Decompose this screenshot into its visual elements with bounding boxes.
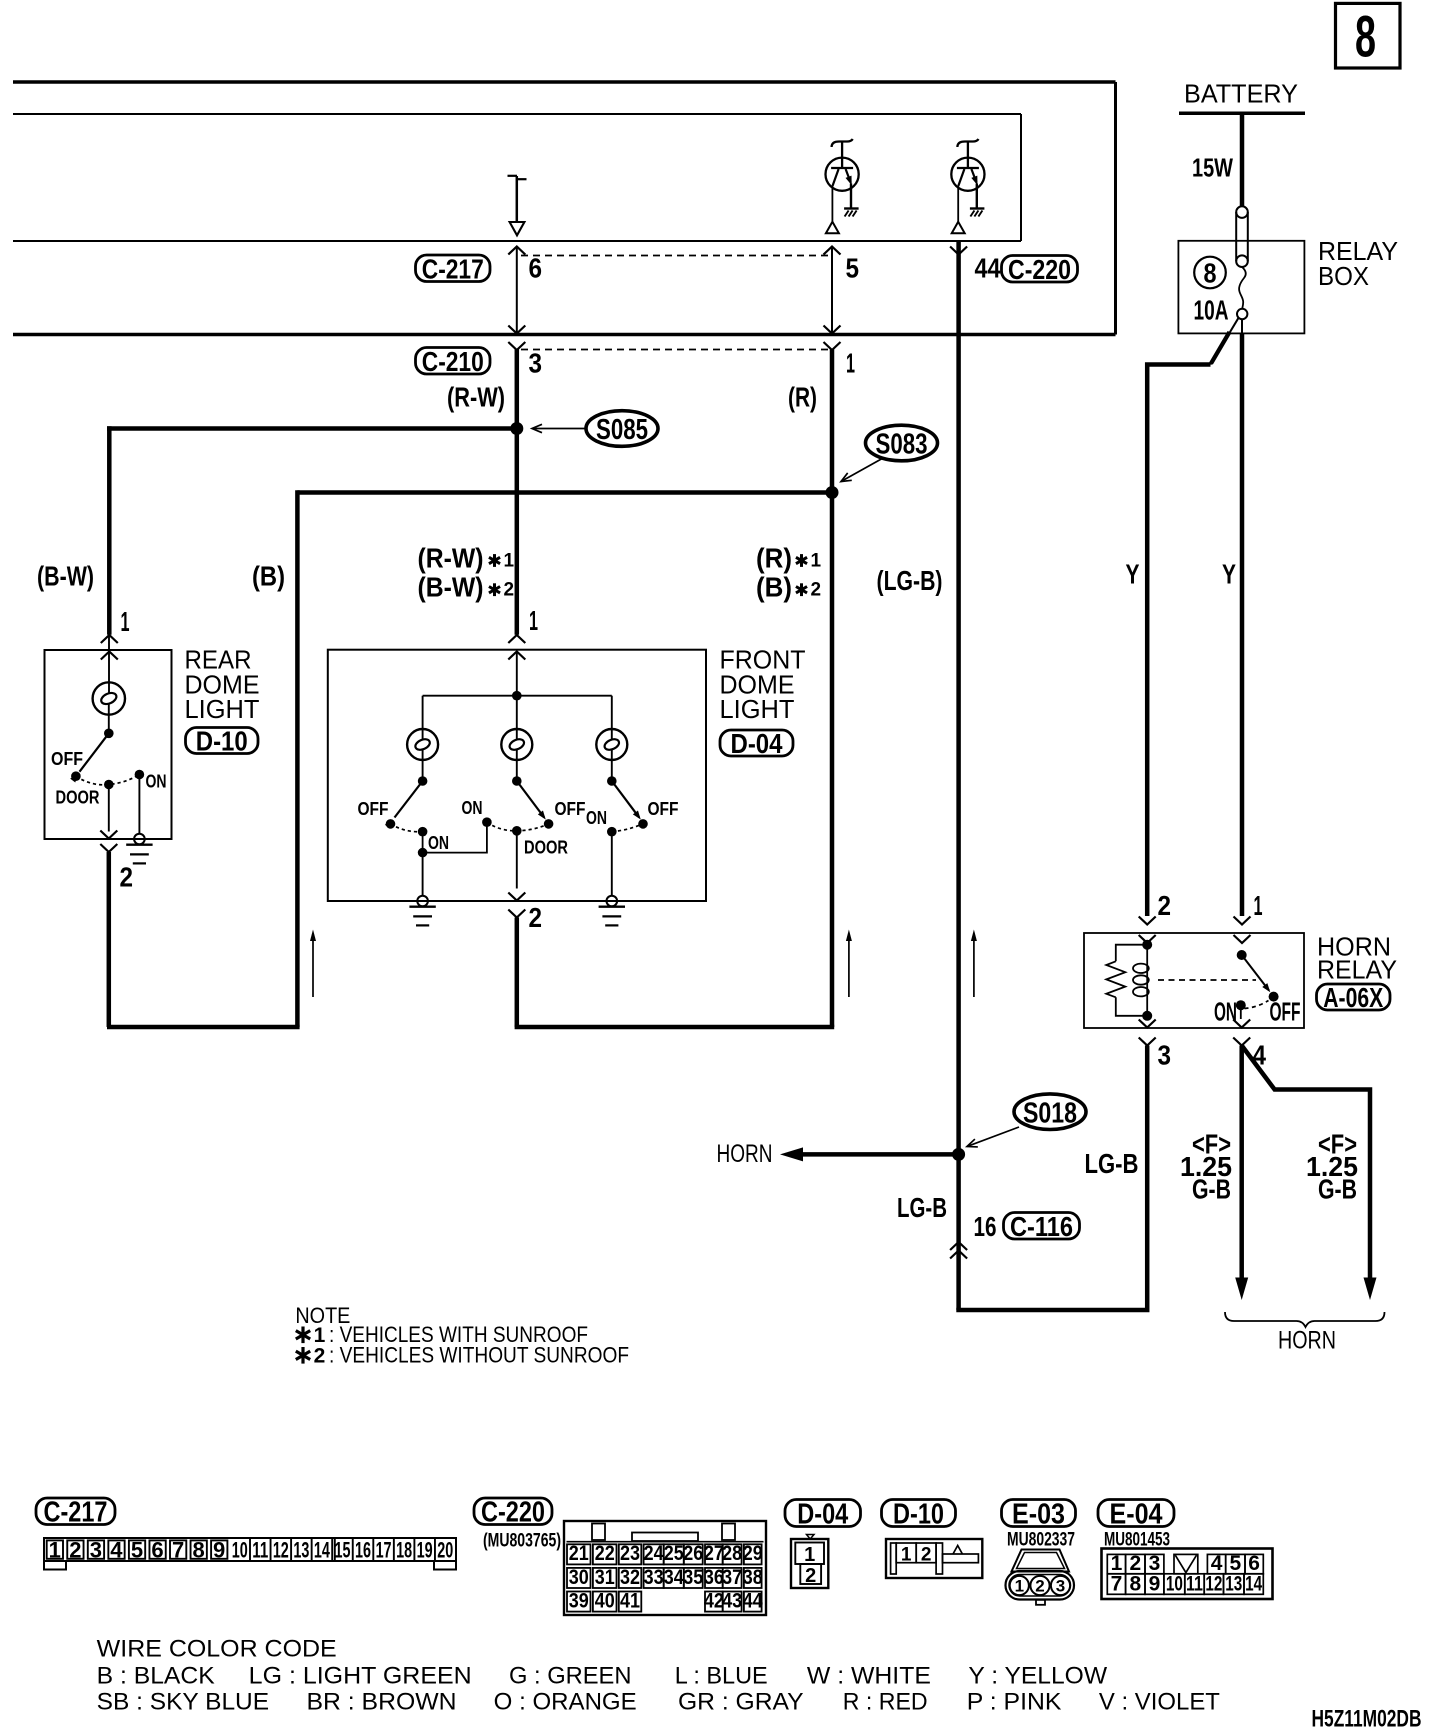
svg-text:29: 29: [743, 1542, 763, 1565]
front-right bulb: [596, 729, 627, 760]
connector E-04 pin numbers: [1111, 1552, 1263, 1595]
label BOX: [1318, 261, 1369, 291]
svg-text:3: 3: [90, 1538, 102, 1563]
connector C-210 label: [416, 346, 491, 377]
svg-text:E-04: E-04: [1110, 1498, 1163, 1530]
svg-text:38: 38: [743, 1566, 763, 1589]
svg-text:(R-W): (R-W): [418, 543, 484, 574]
connector C-220 pin numbers: [569, 1542, 763, 1612]
svg-text:8: 8: [1204, 257, 1217, 288]
lamp feed arrow (dome light circuit, inner box): [508, 176, 527, 236]
svg-text:G-B: G-B: [1192, 1174, 1231, 1205]
label ON (front-right): [586, 808, 607, 828]
wire LG-B horn relay pin3 down: [956, 1046, 1147, 1311]
svg-text:B : BLACK: B : BLACK: [97, 1663, 215, 1690]
wire label (LG-B): [877, 565, 943, 596]
svg-text:5: 5: [131, 1538, 143, 1563]
wire label (R)*1: [756, 543, 822, 574]
svg-text:L : BLUE: L : BLUE: [675, 1663, 768, 1690]
front dome light pin 2 number: [529, 902, 543, 933]
svg-text:LG : LIGHT GREEN: LG : LIGHT GREEN: [249, 1663, 472, 1690]
front-right switch pivot: [607, 776, 617, 786]
label REAR: [185, 645, 252, 675]
wire rail to front-left bulb: [422, 696, 424, 740]
front-left dashed arc: [391, 824, 423, 832]
front-center OFF contact: [544, 819, 554, 829]
svg-text:P : PINK: P : PINK: [967, 1689, 1062, 1716]
label <F> (left): [1192, 1129, 1231, 1160]
svg-text:2: 2: [1158, 890, 1172, 921]
horn relay actuation dashed line: [1158, 979, 1256, 981]
wire label (R-W)*1: [418, 543, 515, 574]
svg-text:1: 1: [504, 551, 515, 572]
node: Q1 output triangle: [826, 222, 839, 234]
chassis ground (Q2 emitter): [970, 209, 985, 217]
svg-text:(B-W): (B-W): [37, 561, 94, 592]
horn relay contact dashed arc: [1245, 1001, 1269, 1009]
horn relay pin 4 link: [1240, 1005, 1242, 1019]
wire label Y (left): [1126, 559, 1140, 590]
connector C-220 pin 44 fork: [950, 247, 967, 255]
svg-text:2: 2: [120, 862, 134, 893]
svg-text:A-06X: A-06X: [1323, 982, 1383, 1013]
rear dome light bulb: [93, 682, 125, 714]
wire (B) horizontal: [297, 490, 832, 495]
wire DOOR down (front): [516, 835, 518, 889]
front-left bulb: [407, 729, 438, 760]
horn relay pin 2 number: [1158, 890, 1172, 921]
svg-text:4: 4: [110, 1538, 123, 1563]
svg-text:RELAY: RELAY: [1317, 955, 1397, 985]
svg-text:19: 19: [417, 1538, 433, 1563]
svg-text:39: 39: [569, 1589, 589, 1612]
connector D-10 pin numbers: [901, 1544, 932, 1565]
label LIGHT (front): [720, 694, 795, 724]
connector E-04 pin grid: [1102, 1549, 1273, 1600]
svg-text:35: 35: [683, 1566, 703, 1589]
svg-text:1: 1: [49, 1538, 61, 1563]
battery bus bar: [1179, 112, 1305, 116]
svg-text:11: 11: [1186, 1572, 1203, 1595]
relay box outline: [1178, 241, 1304, 334]
svg-text:(B): (B): [252, 561, 285, 592]
svg-text:SB : SKY BLUE: SB : SKY BLUE: [97, 1689, 269, 1716]
document number H5Z11M02DB: [1312, 1705, 1422, 1732]
svg-text:21: 21: [569, 1542, 589, 1565]
svg-text:8: 8: [1355, 5, 1376, 70]
connector C-220 panel label: [474, 1497, 552, 1529]
horn relay pin 3 number: [1158, 1040, 1172, 1071]
label RELAY: [1318, 236, 1398, 266]
wire G-B horn feed right branch: [1242, 1046, 1377, 1301]
horn relay resistor: [1106, 961, 1125, 997]
wire (B-W) rear pin 2 down: [107, 852, 112, 1027]
svg-text:15W: 15W: [1192, 153, 1233, 183]
wire Y (right) relay box to horn relay: [1241, 319, 1243, 917]
horn relay coil junction bottom: [1142, 1011, 1152, 1021]
front-right ON contact: [607, 827, 617, 837]
svg-text:11: 11: [252, 1538, 268, 1563]
pin number 3: [529, 348, 543, 379]
wire front-left bulb to switch: [422, 750, 424, 777]
svg-text:ON: ON: [586, 808, 607, 828]
label ON (front-center): [462, 798, 483, 818]
svg-text:8: 8: [1129, 1572, 1141, 1595]
svg-text:(R): (R): [788, 381, 817, 412]
front-center ON contact: [482, 817, 492, 827]
wire (B) vertical: [295, 490, 300, 1027]
svg-text:D-04: D-04: [731, 728, 783, 759]
svg-text:BATTERY: BATTERY: [1184, 78, 1298, 108]
wire label (B): [252, 561, 285, 592]
svg-text:OFF: OFF: [51, 749, 83, 769]
svg-text:28: 28: [722, 1542, 742, 1565]
svg-text:17: 17: [376, 1538, 392, 1563]
svg-text:OFF: OFF: [1270, 997, 1301, 1027]
fuse rating 10A: [1194, 295, 1229, 326]
svg-text:LG-B: LG-B: [1085, 1148, 1139, 1179]
wire label (B)*2: [756, 572, 821, 603]
svg-text:HORN: HORN: [717, 1140, 773, 1168]
wire front-right to ground: [611, 836, 613, 896]
front-left OFF contact: [386, 819, 396, 829]
svg-text:ON: ON: [462, 798, 483, 818]
wire to HORN (arrow): [780, 1147, 959, 1161]
svg-text:22: 22: [595, 1542, 615, 1565]
front feed junction dot: [512, 691, 522, 701]
svg-text:: VEHICLES WITHOUT SUNROOF: : VEHICLES WITHOUT SUNROOF: [329, 1342, 629, 1367]
svg-text:ON: ON: [428, 833, 449, 853]
page number box: [1336, 3, 1401, 68]
horn relay pin 4 number: [1253, 1040, 1267, 1071]
wire label LG-B (pin3): [1085, 1148, 1139, 1179]
wire (Q2 emitter lead): [976, 184, 978, 209]
label ON (rear): [146, 772, 167, 792]
relay box terminal: [1237, 309, 1247, 319]
wire (B-W) vertical to rear dome light: [107, 426, 112, 635]
front-center DOOR contact: [512, 826, 522, 836]
svg-text:13: 13: [1225, 1572, 1242, 1595]
svg-text:44: 44: [975, 253, 1001, 284]
wire color code line 2: [97, 1689, 1221, 1716]
svg-text:OFF: OFF: [358, 799, 389, 819]
wire LG-B (pin44 down to horn tee): [956, 241, 961, 1310]
junction block inner box (open left): [13, 114, 1021, 241]
splice S085 junction dot: [510, 422, 523, 435]
connector D-04 panel label: [785, 1498, 861, 1530]
svg-text:1: 1: [901, 1544, 912, 1565]
svg-text:1: 1: [846, 348, 855, 379]
svg-text:36: 36: [704, 1566, 724, 1589]
fusible link (capsule): [1236, 206, 1248, 267]
svg-text:40: 40: [595, 1589, 615, 1612]
label G-B (right): [1318, 1174, 1357, 1205]
front-left output dot: [418, 848, 428, 858]
rear switch DOOR contact: [104, 780, 114, 790]
svg-text:9: 9: [213, 1538, 225, 1563]
label DOOR (front): [524, 838, 568, 858]
front pin 1 chevrons: [508, 635, 525, 660]
svg-text:3: 3: [529, 348, 543, 379]
wire rear-to-(B) bottom link: [107, 1025, 300, 1030]
svg-text:12: 12: [273, 1538, 289, 1563]
horn relay pin 4 chevrons: [1233, 1020, 1250, 1046]
wire (R) vertical: [830, 350, 835, 1028]
svg-text:LIGHT: LIGHT: [720, 694, 795, 724]
connector E-04 part number: [1104, 1530, 1170, 1551]
svg-text:34: 34: [664, 1566, 684, 1589]
svg-text:C-210: C-210: [422, 346, 484, 377]
connector C-220 label (inline): [1002, 254, 1078, 285]
svg-text:Y : YELLOW: Y : YELLOW: [968, 1663, 1107, 1690]
front-center dashed arc: [487, 822, 549, 831]
svg-text:16: 16: [355, 1538, 371, 1563]
chassis ground (Q1 emitter): [844, 209, 859, 217]
svg-text:O : ORANGE: O : ORANGE: [494, 1689, 637, 1716]
connector C-116 pin 16 number: [974, 1211, 997, 1242]
label HORN (left): [717, 1140, 773, 1168]
note *1: [296, 1322, 588, 1347]
svg-text:14: 14: [1245, 1572, 1262, 1595]
label OFF (front-center): [555, 799, 586, 819]
svg-text:H5Z11M02DB: H5Z11M02DB: [1312, 1705, 1422, 1732]
connector D-10 panel label: [882, 1498, 956, 1530]
svg-text:25: 25: [664, 1542, 684, 1565]
splice S018 arrow: [967, 1127, 1019, 1147]
svg-text:31: 31: [595, 1566, 615, 1589]
svg-text:3: 3: [1056, 1577, 1065, 1596]
label ON (front-left): [428, 833, 449, 853]
wire bulb to switch: [108, 704, 110, 733]
label ON (horn relay): [1214, 997, 1237, 1027]
page number 8: [1355, 5, 1376, 70]
ground (rear dome light): [126, 834, 152, 864]
svg-text:S083: S083: [876, 429, 928, 461]
svg-text:GR : GRAY: GR : GRAY: [678, 1689, 804, 1716]
horn relay ON contact: [1236, 1000, 1246, 1010]
front-center switch arm: [517, 781, 546, 820]
label OFF (front-left): [358, 799, 389, 819]
ground (front-left lamp): [409, 896, 435, 926]
svg-text:14: 14: [314, 1538, 330, 1563]
wire label (R-W): [447, 381, 505, 412]
svg-text:(R-W): (R-W): [447, 381, 505, 412]
svg-text:2: 2: [811, 580, 822, 601]
svg-text:MU802337: MU802337: [1007, 1530, 1075, 1551]
wire to rear bulb: [108, 636, 110, 694]
rear switch arm: [70, 733, 109, 782]
svg-text:2: 2: [504, 580, 515, 601]
relay box fuse number 8 circle: [1194, 257, 1226, 289]
svg-text:G-B: G-B: [1318, 1174, 1357, 1205]
wire Y (left) relay box to horn relay: [1147, 365, 1210, 917]
connector C-217 pin numbers: [49, 1538, 454, 1563]
front-left ON contact: [418, 827, 428, 837]
horn brace: [1225, 1312, 1385, 1327]
wire front-center bulb to switch: [516, 750, 518, 777]
label LIGHT (rear): [185, 694, 260, 724]
rear dome light box: [45, 650, 172, 839]
transistor Q2 (dome lamp driver): [951, 139, 984, 191]
front-right OFF contact: [638, 819, 648, 829]
horn relay resistor bottom link: [1116, 997, 1147, 1016]
svg-text:D-10: D-10: [196, 726, 248, 757]
wire label (B-W)*2: [418, 572, 515, 603]
svg-text:R : RED: R : RED: [843, 1689, 928, 1716]
connector C-210 pin 1 chevron: [824, 342, 841, 350]
wire (Q1 base lead down): [831, 186, 833, 222]
pin number 1 (C-210): [846, 348, 855, 379]
svg-text:30: 30: [569, 1566, 589, 1589]
wire rail to front-center bulb: [516, 696, 518, 740]
wire front pin 2 down: [515, 918, 520, 1028]
rear dome light pin 1 number: [121, 606, 130, 637]
svg-text:G : GREEN: G : GREEN: [509, 1663, 632, 1690]
svg-text:9: 9: [1149, 1572, 1161, 1595]
svg-text:41: 41: [620, 1589, 640, 1612]
svg-text:S018: S018: [1023, 1097, 1077, 1129]
label HORN (relay): [1317, 932, 1391, 962]
connector C-217 label: [416, 253, 491, 284]
splice S085 arrow: [532, 424, 585, 432]
svg-text:BR : BROWN: BR : BROWN: [307, 1689, 457, 1716]
relay box terminal diagonal lead: [1211, 318, 1239, 365]
svg-text:7: 7: [172, 1538, 184, 1563]
svg-text:5: 5: [846, 253, 860, 284]
label 1.25 (right): [1306, 1151, 1358, 1182]
svg-text:37: 37: [722, 1566, 742, 1589]
svg-text:32: 32: [620, 1566, 640, 1589]
label RELAY (horn): [1317, 955, 1397, 985]
svg-text:10: 10: [1166, 1572, 1183, 1595]
svg-text:12: 12: [1205, 1572, 1222, 1595]
label DOME (rear): [185, 669, 260, 699]
splice S085 label: [586, 411, 658, 447]
rear pin 2 chevrons: [100, 831, 117, 853]
svg-text:BOX: BOX: [1318, 261, 1369, 291]
connector C-210 pin 3 chevron: [508, 342, 525, 350]
svg-text:(R): (R): [756, 543, 792, 574]
connector C-217 boundary (dashed): [521, 255, 829, 257]
svg-text:(LG-B): (LG-B): [877, 565, 943, 596]
svg-text:2: 2: [805, 1565, 816, 1587]
svg-text:HORN: HORN: [1278, 1327, 1336, 1355]
svg-text:LIGHT: LIGHT: [185, 694, 260, 724]
svg-text:18: 18: [396, 1538, 412, 1563]
wire color code line 1: [97, 1663, 1108, 1690]
svg-text:C-116: C-116: [1010, 1211, 1073, 1242]
ground (front-right lamp): [599, 896, 625, 926]
wire front-right bulb to switch: [611, 750, 613, 777]
rear switch OFF contact: [71, 771, 81, 781]
flow arrow (B wire): [310, 930, 316, 998]
svg-text:10: 10: [232, 1538, 248, 1563]
svg-text:23: 23: [620, 1542, 640, 1565]
svg-text:8: 8: [193, 1538, 205, 1563]
wire label (R): [788, 381, 817, 412]
svg-text:10A: 10A: [1194, 295, 1229, 326]
svg-text:(B-W): (B-W): [418, 572, 484, 603]
connector D-10 label (inline): [186, 726, 259, 757]
front pin 2 chevrons: [508, 893, 525, 918]
wire (Q1 emitter lead): [850, 184, 852, 209]
connector E-03 drawing: [1006, 1550, 1075, 1605]
connector D-04 drawing: [791, 1535, 828, 1589]
horn relay pin 1 number: [1254, 890, 1263, 921]
connector C-217 panel label: [36, 1497, 115, 1529]
wire front feed: [516, 652, 518, 696]
connector C-217 pin grid: [44, 1538, 456, 1570]
svg-text:1: 1: [1254, 890, 1263, 921]
connector E-03 panel label: [1002, 1498, 1076, 1530]
horn relay pin 1 chevrons: [1234, 917, 1251, 944]
svg-text:D-10: D-10: [893, 1498, 944, 1530]
svg-text:13: 13: [293, 1538, 309, 1563]
connector C-220 pin grid: [564, 1521, 766, 1615]
front-center switch pivot: [512, 776, 522, 786]
svg-text:WIRE COLOR CODE: WIRE COLOR CODE: [97, 1635, 337, 1662]
svg-text:C-220: C-220: [1008, 254, 1071, 285]
fuse rating 15W: [1192, 153, 1233, 183]
svg-text:(B): (B): [756, 572, 792, 603]
svg-text:27: 27: [704, 1542, 724, 1565]
svg-text:26: 26: [683, 1542, 703, 1565]
connector E-03 pin numbers: [1015, 1577, 1066, 1596]
svg-text:1: 1: [529, 605, 538, 636]
transistor Q1 (dome lamp driver): [826, 139, 859, 191]
svg-text:3: 3: [1158, 1040, 1172, 1071]
svg-text:C-220: C-220: [481, 1497, 545, 1529]
wire ON contact to ground: [138, 779, 140, 834]
svg-text:44: 44: [743, 1589, 763, 1612]
svg-text:(MU803765): (MU803765): [483, 1531, 561, 1552]
svg-text:20: 20: [437, 1538, 453, 1563]
connector E-04 panel label: [1098, 1498, 1174, 1530]
front-left switch pivot: [418, 776, 428, 786]
svg-text:6: 6: [529, 253, 543, 284]
svg-text:W : WHITE: W : WHITE: [807, 1663, 931, 1690]
wire front-to-(R) bottom link: [515, 1025, 835, 1030]
connector A-06X label: [1317, 982, 1391, 1013]
fusible link wavy wire: [1239, 267, 1246, 309]
svg-text:C-217: C-217: [44, 1497, 108, 1529]
horn relay switch pivot: [1237, 950, 1247, 960]
label OFF (front-right): [648, 799, 679, 819]
horn relay pin 3 link: [1146, 1016, 1148, 1019]
connector D-10 drawing: [886, 1539, 982, 1578]
rear switch ON contact: [135, 770, 145, 780]
pin number 5: [846, 253, 860, 284]
svg-text:7: 7: [1111, 1572, 1123, 1595]
label WIRE COLOR CODE: [97, 1635, 337, 1662]
connector C-217 pin 6 wire: [508, 247, 525, 335]
rear dome light pin 1 chevrons: [101, 635, 118, 660]
front-center bulb: [501, 729, 532, 760]
svg-text:43: 43: [722, 1589, 742, 1612]
wire rail to front-right bulb: [611, 696, 613, 740]
front-left switch arm: [385, 781, 423, 829]
svg-text:15: 15: [334, 1538, 350, 1563]
splice S083 junction dot: [826, 486, 839, 499]
svg-text:1: 1: [804, 1544, 815, 1566]
svg-text:C-217: C-217: [422, 253, 484, 284]
label HORN (bottom): [1278, 1327, 1336, 1355]
wire label Y (right): [1222, 559, 1236, 590]
horn relay pin 2 chevrons: [1139, 917, 1156, 944]
connector E-03 part number: [1007, 1530, 1075, 1551]
wire label (B-W): [37, 561, 94, 592]
rear switch pivot: [104, 729, 114, 739]
